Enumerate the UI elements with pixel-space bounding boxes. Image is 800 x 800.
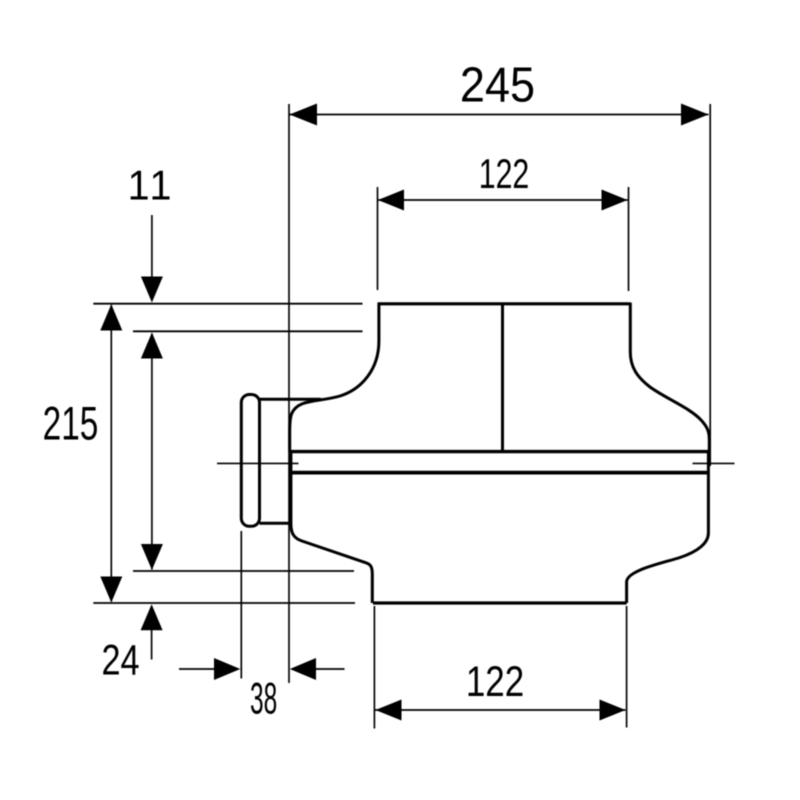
svg-text:38: 38 [250,673,277,724]
arrowhead 11 down [141,277,163,303]
dimension line 38 left part [179,668,214,670]
fan body: bottom edge [373,601,627,604]
svg-text:215: 215 [43,397,99,450]
svg-text:122: 122 [466,659,524,706]
dimension line 122 top [378,199,628,201]
arrowhead inner up [141,333,163,359]
reference line top outer (y=303.7) [93,303,362,305]
svg-text:24: 24 [101,637,139,684]
extension line bottom-122 left [373,606,375,729]
inlet collar tube bottom line [260,522,292,525]
dimension line 38 right part [316,668,345,670]
dimension line 215 [110,305,112,602]
arrowhead 122 top left [378,190,404,211]
extension line right for 245 [709,104,711,466]
arrowhead 38 left [214,658,240,680]
dimension 24 leader shaft [151,629,153,660]
arrowhead 215 up [100,304,122,330]
arrowhead 122 bottom left [375,700,401,721]
arrowhead 245 left [290,104,318,126]
dimension 11 leader shaft [151,215,153,278]
fan body: bottom-left S-curve [291,452,372,603]
svg-text:122: 122 [479,150,530,197]
arrowhead 122 bottom right [600,700,626,721]
fan body: bottom-right S-curve [627,452,709,603]
extension line 38 left [240,531,242,679]
dimension line 122 bottom [375,709,626,711]
inner dimension line (unlabeled) [151,334,153,570]
fan body: top-right S-curve [630,303,709,452]
reference line bottom inner (y=571) [133,570,354,572]
clamp band top line [290,450,710,453]
reference line top inner (y=331.3) [133,330,363,332]
horizontal centerline left [217,462,299,464]
dimension line 245 [290,114,709,116]
arrowhead 38 right [290,658,316,680]
extension line top-122 right [628,187,630,291]
fan body: top-left S-curve [290,303,379,452]
inlet collar tube top line [260,398,322,401]
reference line bottom outer (y=603) [93,602,355,604]
arrowhead 24 up [141,604,163,630]
extension line left for 245 and 38 [288,104,290,683]
extension line top-122 left [377,187,379,290]
arrowhead 215 down [100,577,122,603]
svg-text:245: 245 [460,58,535,113]
arrowhead 122 top right [602,190,628,211]
fan body: top edge [378,302,631,305]
extension line bottom-122 right [626,606,628,728]
inlet collar flange [241,395,259,527]
arrowhead inner down [141,544,163,570]
arrowhead 245 right [681,104,709,126]
horizontal centerline right tick [693,462,735,464]
svg-text:11: 11 [128,161,175,208]
clamp band bottom line [290,471,709,475]
fan body: center seam line [501,304,504,452]
